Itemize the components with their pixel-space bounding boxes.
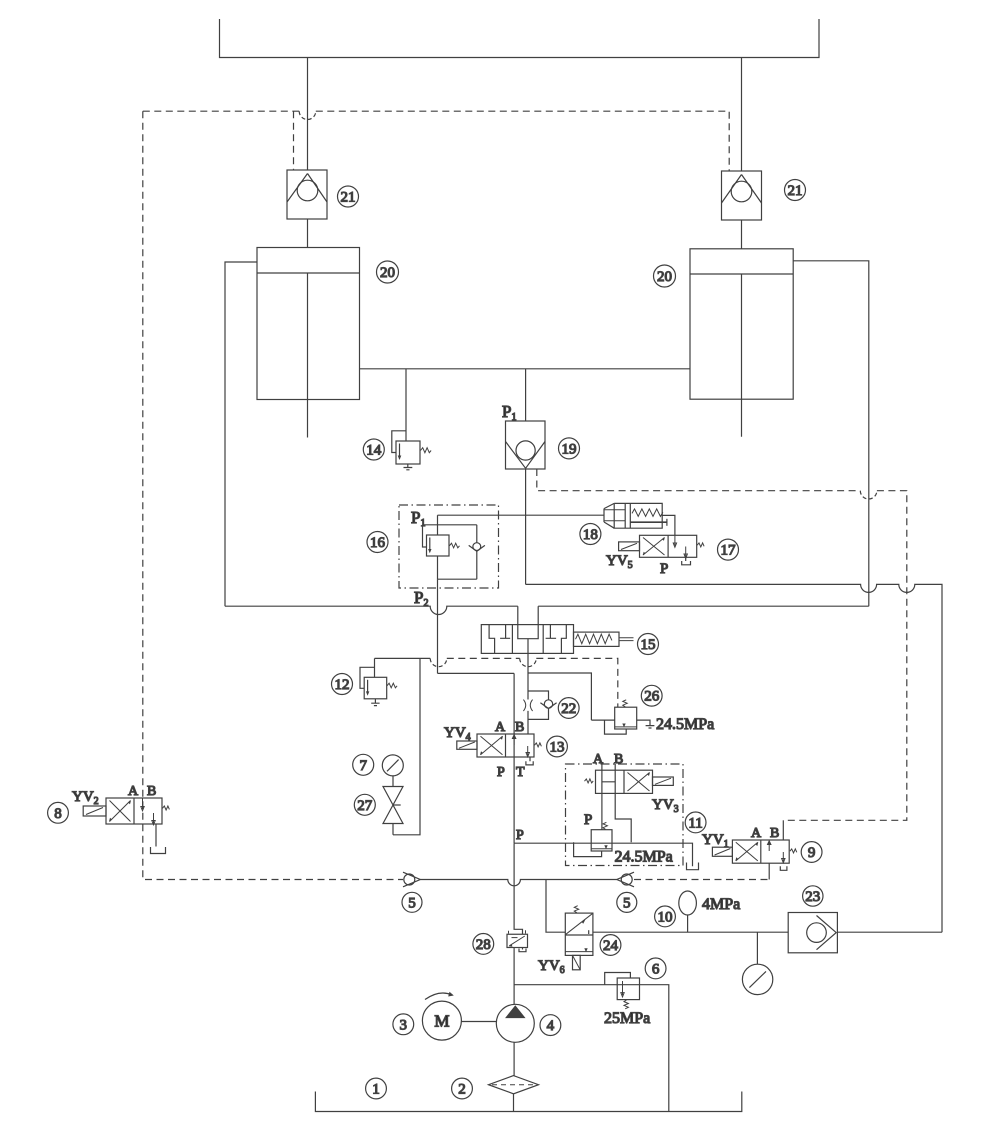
component 16 enclosure (dash-dot) bbox=[399, 505, 499, 588]
label 2 bbox=[452, 1078, 473, 1099]
check valve bypass 22 bbox=[528, 691, 557, 719]
svg-text:P1: P1 bbox=[411, 508, 425, 529]
cylinder 20 right bbox=[690, 249, 793, 437]
solenoid valve 17 YV5 bbox=[619, 535, 705, 565]
wire rod line into valve 15 ports bbox=[518, 606, 538, 624]
svg-text:9: 9 bbox=[808, 845, 816, 861]
svg-text:16: 16 bbox=[370, 535, 386, 551]
svg-text:14: 14 bbox=[366, 443, 382, 459]
svg-text:P: P bbox=[660, 561, 668, 577]
svg-text:6: 6 bbox=[652, 961, 660, 977]
relief valve 14 bbox=[392, 431, 431, 470]
svg-text:B: B bbox=[770, 826, 779, 841]
shutoff valve 27 bbox=[383, 776, 403, 835]
label 8 bbox=[48, 802, 69, 823]
svg-text:21: 21 bbox=[341, 190, 356, 206]
svg-text:24: 24 bbox=[603, 938, 619, 954]
svg-text:YV5: YV5 bbox=[606, 553, 633, 571]
check valve 23 bbox=[788, 913, 837, 953]
label 12 bbox=[332, 674, 353, 695]
wire valve 19 outlet down and right to far-right drop bbox=[525, 469, 527, 584]
pressure gauge at pump line bbox=[742, 932, 772, 994]
svg-text:P: P bbox=[497, 765, 505, 780]
wire beam to check valve 21 right bbox=[741, 57, 743, 171]
svg-text:YV2: YV2 bbox=[72, 789, 99, 807]
label 20 right bbox=[654, 265, 676, 287]
svg-text:21: 21 bbox=[788, 183, 803, 199]
wire main pressure line 843 with tank end bbox=[514, 843, 698, 870]
svg-text:18: 18 bbox=[583, 527, 598, 543]
wire valve 15 drain down bbox=[527, 653, 529, 673]
svg-text:P1: P1 bbox=[502, 402, 516, 423]
check valve 5 right bbox=[617, 872, 634, 887]
svg-text:P: P bbox=[516, 828, 524, 843]
svg-text:19: 19 bbox=[562, 441, 577, 457]
check valve inside 16 bbox=[469, 525, 485, 579]
wire 658 pilot line from relief 12 to relief 26 vent bbox=[375, 657, 431, 659]
wire left cylinder rod-side port bbox=[225, 262, 257, 606]
label 24 bbox=[600, 935, 621, 956]
label 1 bbox=[366, 1078, 387, 1099]
svg-text:A: A bbox=[593, 752, 604, 767]
wire check valve 23 to right drop bbox=[837, 931, 942, 933]
svg-text:4MPa: 4MPa bbox=[702, 896, 740, 913]
svg-text:YV1: YV1 bbox=[702, 832, 729, 850]
label 11 bbox=[685, 812, 706, 833]
svg-text:26: 26 bbox=[644, 689, 660, 705]
wire check valve 21 left to cylinder bbox=[307, 219, 309, 248]
component 18 pressure actuator bbox=[604, 503, 667, 528]
orifice 22 bbox=[523, 700, 532, 711]
accumulator 10 bbox=[679, 891, 697, 932]
label 14 bbox=[363, 439, 384, 460]
svg-text:T: T bbox=[516, 765, 525, 780]
wire cap-side line between cylinders bbox=[360, 368, 691, 370]
label 3 bbox=[393, 1014, 414, 1035]
label 20 left bbox=[377, 261, 399, 283]
label 26 bbox=[641, 685, 662, 706]
label 4 bbox=[540, 1015, 561, 1036]
label 9 bbox=[801, 842, 822, 863]
svg-text:4: 4 bbox=[547, 1018, 555, 1034]
suction filter 2 bbox=[489, 1076, 539, 1094]
solenoid valve 13 YV4 bbox=[457, 734, 542, 765]
wire pilot of valve 19 (dashed) bbox=[537, 469, 861, 491]
wire motor shaft bbox=[461, 1021, 496, 1023]
label 5 right bbox=[617, 892, 637, 912]
component 11 enclosure (dash-dot) bbox=[566, 764, 684, 866]
label 10 bbox=[655, 906, 676, 927]
svg-text:P: P bbox=[584, 812, 592, 828]
wire P line through valve 13 bbox=[513, 673, 515, 843]
hydraulic pump 4 bbox=[496, 1004, 534, 1042]
label 19 bbox=[559, 438, 580, 459]
svg-text:8: 8 bbox=[54, 806, 62, 822]
label 6 bbox=[645, 958, 666, 979]
cylinder 20 left bbox=[257, 248, 360, 438]
svg-text:23: 23 bbox=[805, 889, 820, 905]
solenoid valve 8 YV2 bbox=[83, 798, 169, 854]
svg-text:24.5MPa: 24.5MPa bbox=[615, 849, 673, 866]
wire cap line to pilot check valve 19 bbox=[525, 369, 527, 421]
wire valve 28 to pump bbox=[513, 948, 515, 1005]
wire filter to tank bbox=[513, 1094, 515, 1112]
svg-text:YV4: YV4 bbox=[444, 725, 471, 743]
svg-text:A: A bbox=[751, 826, 762, 841]
pressure gauge 7 bbox=[382, 755, 403, 776]
label 21 left bbox=[338, 186, 359, 207]
label 22 bbox=[558, 698, 579, 719]
label 27 bbox=[354, 794, 375, 815]
wire P2 drop bbox=[438, 579, 515, 673]
svg-text:10: 10 bbox=[658, 909, 673, 925]
wire junction 673 right branch bbox=[528, 673, 591, 720]
oil tank 1 bbox=[315, 1092, 741, 1112]
wire valve 24 to check valve 23 bbox=[593, 931, 788, 933]
wire beam to check valve 21 left bbox=[307, 57, 309, 170]
wire pump suction bbox=[513, 1042, 515, 1075]
svg-text:11: 11 bbox=[688, 815, 702, 831]
svg-text:YV3: YV3 bbox=[652, 797, 679, 815]
wire top dashed line bbox=[143, 110, 299, 112]
svg-text:17: 17 bbox=[721, 543, 737, 559]
relief valve 26 bbox=[591, 700, 654, 734]
label 28 bbox=[473, 934, 494, 955]
label 16 bbox=[367, 532, 388, 553]
wire P riser of pilot relief in 11 bbox=[601, 793, 603, 829]
svg-text:15: 15 bbox=[641, 637, 656, 653]
svg-text:3: 3 bbox=[400, 1017, 408, 1033]
svg-text:7: 7 bbox=[359, 758, 367, 774]
svg-text:B: B bbox=[515, 720, 524, 735]
svg-text:24.5MPa: 24.5MPa bbox=[656, 716, 714, 733]
solenoid cartridge valve 24 YV6 bbox=[565, 906, 593, 970]
solenoid valve YV3 inside 11 bbox=[585, 764, 674, 793]
relief valve inside 16 bbox=[423, 515, 477, 556]
label 5 left bbox=[402, 892, 422, 912]
svg-text:B: B bbox=[147, 784, 156, 799]
svg-text:YV6: YV6 bbox=[538, 958, 565, 976]
relief valve 12 bbox=[360, 658, 397, 705]
svg-text:20: 20 bbox=[380, 265, 395, 281]
svg-text:25MPa: 25MPa bbox=[604, 1010, 650, 1027]
wire vertical x420 to gauge-isolator bbox=[393, 658, 420, 834]
wire pump pressure line through valve 28 bbox=[514, 843, 522, 934]
wire B line down to valve 13 with orifice 22 bbox=[527, 673, 529, 734]
wire dashed from check valve 5 right to valve 9 bbox=[634, 879, 769, 881]
wire 18 to valve 17 bbox=[662, 515, 675, 535]
label 15 bbox=[638, 634, 659, 655]
svg-text:M: M bbox=[434, 1012, 449, 1031]
label 7 bbox=[353, 754, 374, 775]
wire rod-side line with hop over P2 bbox=[225, 606, 518, 614]
check valve 5 left bbox=[403, 872, 420, 887]
svg-text:28: 28 bbox=[476, 937, 491, 953]
wire B branch in 11 bbox=[615, 793, 631, 842]
wire branch to relief 6 bbox=[514, 985, 669, 1112]
check valve 21 left bbox=[287, 170, 327, 219]
wire pilot to valve 9 B port bbox=[782, 820, 784, 840]
svg-text:20: 20 bbox=[657, 269, 672, 285]
wire branch to valve 24 bbox=[546, 880, 565, 933]
prefill valve 15 bbox=[481, 625, 633, 654]
press beam bbox=[220, 19, 820, 58]
svg-text:2: 2 bbox=[458, 1082, 466, 1098]
wire riser to relief valve 14 bbox=[405, 369, 407, 441]
wire left dashed boundary bbox=[143, 111, 403, 879]
relief valve 6 bbox=[605, 973, 640, 1009]
wire right cylinder rod-side port bbox=[793, 261, 869, 606]
svg-text:5: 5 bbox=[408, 895, 416, 911]
sampling valve 28 bbox=[507, 930, 528, 952]
label 13 bbox=[547, 736, 568, 757]
label 17 bbox=[718, 539, 739, 560]
svg-text:A: A bbox=[128, 784, 139, 799]
pilot operated check valve 19 bbox=[506, 421, 546, 469]
pilot relief valve in 11 bbox=[574, 822, 612, 856]
svg-text:A: A bbox=[495, 720, 506, 735]
check valve 21 right bbox=[722, 171, 762, 220]
svg-text:1: 1 bbox=[372, 1082, 380, 1098]
svg-text:B: B bbox=[614, 752, 623, 767]
svg-text:5: 5 bbox=[623, 895, 631, 911]
wire line 879 with hop over pump line bbox=[420, 880, 617, 886]
svg-text:22: 22 bbox=[561, 701, 576, 717]
label 23 bbox=[803, 886, 823, 906]
wire relief 16 outlet to P2 bbox=[438, 556, 477, 579]
wire check valve 21 right to cylinder bbox=[741, 220, 743, 249]
solenoid valve 9 YV1 bbox=[712, 840, 796, 870]
electric motor 3 bbox=[422, 992, 461, 1040]
label 18 bbox=[580, 524, 601, 545]
svg-text:13: 13 bbox=[550, 740, 565, 756]
wire valve 9 bottom port to dashed line bbox=[768, 863, 770, 879]
svg-text:12: 12 bbox=[335, 677, 350, 693]
wire dashed stub to check valve 21 left bbox=[293, 111, 295, 170]
svg-text:27: 27 bbox=[357, 798, 373, 814]
wire P1 line from component 16 to component 18 bbox=[438, 514, 604, 516]
label 21 right bbox=[785, 180, 806, 201]
